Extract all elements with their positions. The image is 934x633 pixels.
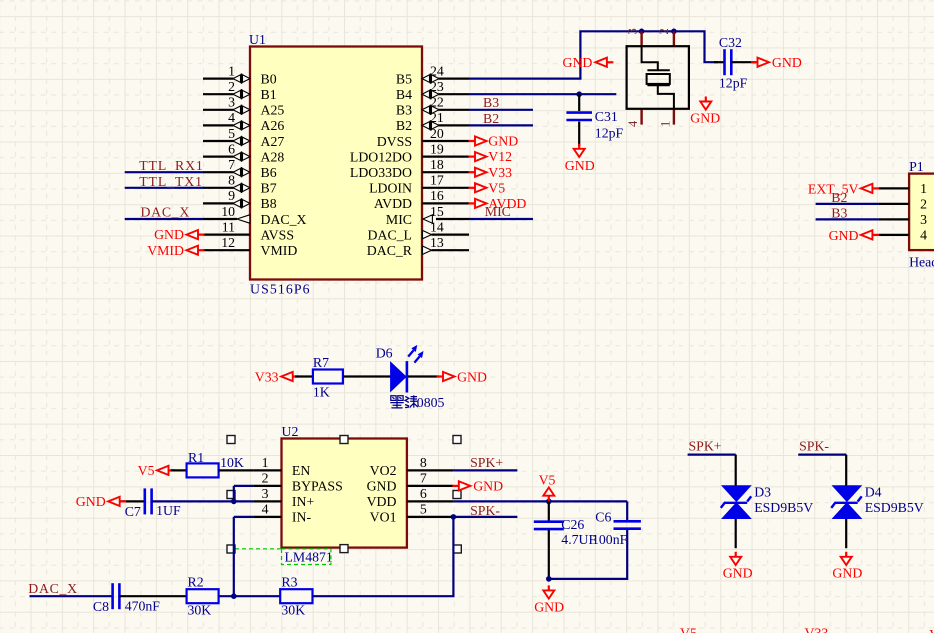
U1 pin 16 (AVDD) [374, 188, 469, 211]
svg-text:2: 2 [920, 197, 927, 212]
wire MIC from U1 pin 15 [469, 218, 533, 220]
wire C7 to U2 pin 3 [152, 500, 254, 502]
svg-text:11: 11 [222, 219, 235, 234]
U1 pin 21 (B2) [396, 110, 469, 133]
wire V5 to R1 [171, 469, 187, 471]
svg-text:A27: A27 [261, 134, 285, 149]
svg-text:20: 20 [430, 126, 444, 141]
svg-text:4: 4 [626, 120, 640, 127]
U1 pin 15 (MIC) [386, 204, 469, 227]
U2 pin 5 (VO1) [370, 502, 454, 525]
svg-text:2: 2 [228, 79, 235, 94]
svg-text:1K: 1K [313, 384, 330, 399]
U1 pin 14 (DAC_L) [368, 219, 469, 242]
svg-text:A28: A28 [261, 149, 285, 164]
svg-text:3: 3 [262, 486, 269, 501]
svg-text:12pF: 12pF [595, 126, 624, 141]
svg-text:6: 6 [420, 486, 427, 501]
svg-text:ESD9B5V: ESD9B5V [865, 500, 924, 515]
U2 pin 4 (IN-) [253, 502, 311, 525]
wire U2 pin 2 BYPASS [234, 485, 254, 487]
svg-text:P1: P1 [909, 159, 924, 174]
svg-text:V5: V5 [539, 472, 556, 487]
capacitor C31 [566, 94, 592, 146]
selection handle mid-left [227, 491, 235, 499]
power port V33 at U1 pin 18 [469, 165, 513, 180]
capacitor C8 [111, 583, 114, 609]
junction C31/B4 [576, 91, 582, 97]
IC U1 body [250, 47, 422, 280]
junction C26/C6 bottom [546, 576, 552, 582]
svg-text:10: 10 [221, 204, 235, 219]
junction crystal pin 2 [671, 29, 677, 35]
svg-text:LM4871: LM4871 [285, 550, 333, 565]
power port V5 at R1 [138, 463, 175, 478]
power port V5 at U1 pin 17 [469, 180, 506, 195]
svg-text:R2: R2 [188, 574, 204, 589]
svg-text:C7: C7 [125, 504, 141, 519]
power port GND below crystal [690, 97, 720, 126]
svg-text:ESD9B5V: ESD9B5V [754, 500, 813, 515]
svg-text:V5: V5 [488, 180, 505, 195]
svg-text:DAC_X: DAC_X [28, 581, 78, 596]
svg-text:A26: A26 [261, 118, 285, 133]
power port V5 above C26 [539, 472, 556, 502]
svg-text:LDO33DO: LDO33DO [350, 165, 412, 180]
D6 light arrows [408, 345, 423, 363]
connector P1 body [909, 174, 934, 251]
wire TTL_RX1 to U1 pin 7 [125, 171, 204, 173]
svg-text:B1: B1 [261, 87, 277, 102]
P1 pin 1 [879, 181, 928, 196]
svg-text:0805: 0805 [417, 395, 445, 410]
svg-text:100nF: 100nF [592, 532, 628, 547]
U1 pin 22 (B3) [396, 95, 469, 118]
U1 pin 2 (B1) [203, 79, 277, 102]
svg-text:1UF: 1UF [156, 503, 181, 518]
wire B2 from U1 pin 21 [469, 124, 533, 126]
power port VMID at U1 pin 12 [147, 243, 204, 258]
svg-text:LDO12DO: LDO12DO [350, 149, 412, 164]
svg-text:3: 3 [920, 212, 927, 227]
svg-text:C6: C6 [595, 510, 611, 525]
svg-text:7: 7 [420, 471, 427, 486]
svg-text:SPK+: SPK+ [689, 438, 722, 453]
U1 pin 18 (LDO33DO) [350, 157, 469, 180]
svg-text:21: 21 [430, 110, 444, 125]
svg-text:R1: R1 [188, 450, 204, 465]
selection handle top-left [227, 436, 235, 444]
U1 pin 9 (B8) [203, 188, 277, 211]
svg-text:MIC: MIC [386, 212, 412, 227]
U1 pin 3 (A25) [203, 95, 284, 118]
svg-text:SPK-: SPK- [470, 503, 500, 518]
svg-text:BYPASS: BYPASS [292, 479, 343, 494]
svg-text:GND: GND [832, 566, 862, 581]
svg-text:AVDD: AVDD [374, 196, 412, 211]
U1 pin 24 (B5) [396, 63, 469, 86]
U2 pin 2 (BYPASS) [253, 471, 342, 494]
power port GND floating near crystal top [562, 55, 613, 70]
wire D6 to GND [408, 375, 439, 377]
svg-text:470nF: 470nF [125, 598, 161, 613]
svg-text:MIC: MIC [485, 204, 511, 219]
U1 pin 23 (B4) [396, 79, 469, 102]
svg-text:V5: V5 [138, 463, 155, 478]
svg-text:1: 1 [659, 121, 673, 127]
wire R7 to D6 [343, 375, 391, 377]
wire U1 pin24 B5 to crystal net [469, 31, 718, 78]
wire TTL_TX1 to U1 pin 8 [125, 187, 204, 189]
svg-text:1: 1 [228, 63, 235, 78]
svg-text:12: 12 [221, 235, 235, 250]
wire R2 to R3 [219, 595, 281, 597]
svg-text:V33: V33 [805, 625, 829, 633]
capacitor C26 [534, 501, 564, 579]
svg-text:V33: V33 [488, 165, 512, 180]
svg-text:D4: D4 [865, 484, 882, 499]
power port GND right of D6 [437, 369, 488, 384]
svg-text:B2: B2 [396, 118, 412, 133]
svg-text:U1: U1 [249, 32, 266, 47]
svg-text:30K: 30K [188, 603, 212, 618]
svg-text:IN+: IN+ [292, 494, 315, 509]
svg-text:VMID: VMID [261, 243, 298, 258]
U2 pin 3 (IN+) [253, 486, 314, 509]
svg-text:GND: GND [829, 228, 859, 243]
U1 pin 4 (A26) [203, 110, 284, 133]
svg-text:VDD: VDD [367, 494, 397, 509]
U2 pin 1 (EN) [253, 455, 310, 478]
power port GND at U2 pin 7 [452, 479, 503, 494]
wire B2 to P1 pin 2 [816, 203, 879, 205]
U1 pin 13 (DAC_R) [367, 235, 469, 258]
svg-text:VO1: VO1 [370, 510, 397, 525]
U1 pin 7 (B6) [203, 157, 277, 180]
selection handle bot-right [453, 545, 461, 553]
selection handle top-right [453, 436, 461, 444]
wire SPK- from U2 pin 5 [453, 516, 517, 518]
crystal symbol [642, 46, 674, 109]
svg-text:24: 24 [430, 63, 444, 78]
svg-text:B7: B7 [261, 181, 277, 196]
svg-text:V33: V33 [255, 369, 279, 384]
D6 value emerald-green 0805 [390, 395, 444, 410]
svg-text:B3: B3 [396, 103, 412, 118]
svg-text:B4: B4 [396, 87, 412, 102]
svg-text:D3: D3 [754, 484, 771, 499]
amplifier U2 body [282, 439, 407, 548]
svg-text:DAC_X: DAC_X [261, 212, 307, 227]
power port GND at P1 pin 4 [829, 228, 879, 243]
wire IN- down to R2/R3 junction [233, 517, 235, 596]
U1 pin 8 (B7) [203, 173, 277, 196]
svg-text:B3: B3 [831, 205, 847, 220]
wire R3 to VO1 feedback [313, 517, 454, 596]
svg-text:R7: R7 [313, 355, 329, 370]
U1 pin 6 (A28) [203, 141, 284, 164]
power port GND right of C32 [751, 55, 802, 70]
U2 pin 8 (VO2) [370, 455, 454, 478]
svg-text:12pF: 12pF [719, 76, 748, 91]
junction VDD/C26 [546, 499, 552, 505]
svg-text:GND: GND [488, 134, 518, 149]
svg-text:13: 13 [430, 235, 444, 250]
svg-text:5: 5 [420, 502, 427, 517]
capacitor C32 [714, 49, 756, 75]
svg-text:GND: GND [457, 369, 487, 384]
svg-text:TTL_RX1: TTL_RX1 [139, 158, 204, 173]
svg-text:A25: A25 [261, 103, 285, 118]
svg-text:19: 19 [430, 141, 444, 156]
svg-text:8: 8 [420, 455, 427, 470]
power port GND at U1 pin 11 [154, 227, 204, 242]
svg-text:AVSS: AVSS [261, 227, 295, 242]
svg-text:GND: GND [562, 55, 592, 70]
svg-text:V12: V12 [488, 149, 512, 164]
wire DAC_X to C8 [30, 595, 114, 597]
wire B3 from U1 pin 22 [469, 109, 533, 111]
wire B3 to P1 pin 3 [816, 218, 879, 220]
svg-text:GND: GND [473, 479, 503, 494]
wire VDD from U2 pin 6 [453, 500, 627, 502]
svg-text:V1: V1 [929, 627, 934, 633]
selection handle bot-mid [340, 545, 348, 553]
svg-text:C8: C8 [93, 599, 109, 614]
svg-text:2: 2 [262, 471, 269, 486]
svg-text:D6: D6 [376, 346, 393, 361]
power port V33 at R7 [255, 369, 299, 384]
P1 pin 4 [879, 228, 928, 243]
svg-text:B5: B5 [396, 71, 412, 86]
svg-text:17: 17 [430, 173, 444, 188]
crystal Y1 body [627, 46, 689, 109]
selection handle mid-right [453, 491, 461, 499]
svg-text:VMID: VMID [147, 243, 184, 258]
selection handle bot-left [227, 545, 235, 553]
svg-text:IN-: IN- [292, 510, 312, 525]
svg-text:DAC_X: DAC_X [141, 205, 191, 220]
svg-text:B2: B2 [483, 111, 499, 126]
svg-text:16: 16 [430, 188, 444, 203]
power port GND below D4 [832, 552, 862, 581]
power port AVDD at U1 pin 16 [469, 196, 527, 211]
TVS diode D4 [831, 455, 862, 549]
svg-text:3: 3 [228, 95, 235, 110]
U1 pin 20 (DVSS) [377, 126, 469, 149]
U1 pin 5 (A27) [203, 126, 284, 149]
resistor R7 [313, 370, 343, 384]
svg-text:22: 22 [430, 95, 444, 110]
P1 pin 3 [879, 212, 928, 227]
svg-text:Header 4: Header 4 [909, 254, 934, 269]
wire BYPASS down to IN+ [233, 486, 235, 502]
svg-text:30K: 30K [281, 603, 305, 618]
selection handle top-mid [340, 436, 348, 444]
crystal Y1 pin stubs [642, 31, 674, 124]
svg-text:R3: R3 [281, 574, 297, 589]
svg-text:U2: U2 [282, 424, 299, 439]
wire V33 to R7 [295, 375, 313, 377]
wire SPK- to D4 [798, 454, 846, 456]
resistor R2 [187, 589, 219, 603]
svg-text:6: 6 [228, 141, 235, 156]
svg-text:B6: B6 [261, 165, 277, 180]
svg-text:GND: GND [367, 479, 397, 494]
svg-text:TTL_TX1: TTL_TX1 [139, 174, 203, 189]
svg-text:B3: B3 [483, 95, 499, 110]
resistor R1 [187, 463, 219, 477]
TVS diode D3 [721, 455, 752, 549]
svg-text:C32: C32 [719, 35, 742, 50]
U1 pin 19 (LDO12DO) [350, 141, 469, 164]
svg-text:B2: B2 [831, 190, 847, 205]
svg-text:GND: GND [154, 227, 184, 242]
svg-text:GND: GND [534, 600, 564, 615]
U1 pin 10 (DAC_X) [203, 204, 307, 227]
wire DAC_X to U1 pin 10 [125, 218, 204, 220]
svg-text:GND: GND [690, 111, 720, 126]
wire SPK+ to D3 [688, 454, 736, 456]
power port GND at C7 [76, 494, 126, 509]
junction R2/R3 [231, 593, 237, 599]
svg-text:GND: GND [772, 55, 802, 70]
svg-text:4: 4 [262, 502, 269, 517]
svg-text:9: 9 [228, 188, 235, 203]
svg-text:V5: V5 [680, 625, 697, 633]
svg-text:2: 2 [657, 28, 671, 34]
power port EXT_5V at P1 pin 1 [808, 181, 879, 196]
svg-text:C31: C31 [595, 109, 618, 124]
LED D6 [390, 361, 407, 392]
wire U2 pin 4 IN- [234, 516, 254, 518]
junction IN+ [231, 499, 237, 505]
svg-text:10K: 10K [220, 455, 244, 470]
svg-text:LDOIN: LDOIN [369, 181, 412, 196]
U1 pin 17 (LDOIN) [369, 173, 469, 196]
svg-text:4: 4 [920, 228, 927, 243]
svg-text:18: 18 [430, 157, 444, 172]
power port V12 at U1 pin 19 [469, 149, 513, 164]
power port GND below C31 [565, 144, 595, 173]
junction crystal pin 3 [639, 29, 645, 35]
wire U1 pin23 B4 to C31 [469, 93, 616, 95]
U2 pin 7 (GND) [367, 471, 454, 494]
U1 pin 1 (B0) [203, 63, 277, 86]
svg-text:1: 1 [262, 455, 269, 470]
svg-text:DVSS: DVSS [377, 134, 412, 149]
svg-text:DAC_R: DAC_R [367, 243, 413, 258]
svg-text:B0: B0 [261, 71, 277, 86]
resistor R3 [280, 589, 312, 603]
svg-text:23: 23 [430, 79, 444, 94]
power port GND at U1 pin 20 [469, 134, 519, 149]
svg-text:GND: GND [76, 494, 106, 509]
junction SPK-/feedback [451, 514, 457, 520]
capacitor C7 [119, 488, 152, 514]
P1 pin 2 [879, 197, 928, 212]
svg-text:5: 5 [228, 126, 235, 141]
U1 pin 12 (VMID) [203, 235, 297, 258]
U2 pin 6 (VDD) [367, 486, 454, 509]
svg-text:SPK+: SPK+ [470, 455, 503, 470]
wire SPK+ from U2 pin 8 [453, 469, 517, 471]
wire C8 to R2 [119, 595, 187, 597]
svg-text:14: 14 [430, 219, 444, 234]
svg-text:8: 8 [228, 173, 235, 188]
svg-text:B8: B8 [261, 196, 277, 211]
svg-text:7: 7 [228, 157, 235, 172]
svg-text:3: 3 [626, 28, 640, 34]
svg-text:VO2: VO2 [370, 463, 397, 478]
capacitor C6 and loop wire [549, 501, 641, 579]
svg-text:GND: GND [723, 566, 753, 581]
svg-text:15: 15 [430, 204, 444, 219]
svg-text:DAC_L: DAC_L [368, 227, 412, 242]
svg-text:EN: EN [292, 463, 310, 478]
svg-text:GND: GND [565, 158, 595, 173]
svg-text:1: 1 [920, 181, 927, 196]
U1 pin 11 (AVSS) [203, 219, 294, 242]
U2 value LM4871 with selection [235, 548, 282, 550]
wire R1 to U2 pin 1 [219, 469, 254, 471]
power port GND below D3 [723, 552, 753, 581]
svg-text:C26: C26 [561, 517, 584, 532]
power port GND below C26 [534, 585, 564, 614]
svg-text:4: 4 [228, 110, 235, 125]
svg-text:SPK-: SPK- [799, 438, 829, 453]
svg-text:US516P6: US516P6 [250, 282, 311, 297]
